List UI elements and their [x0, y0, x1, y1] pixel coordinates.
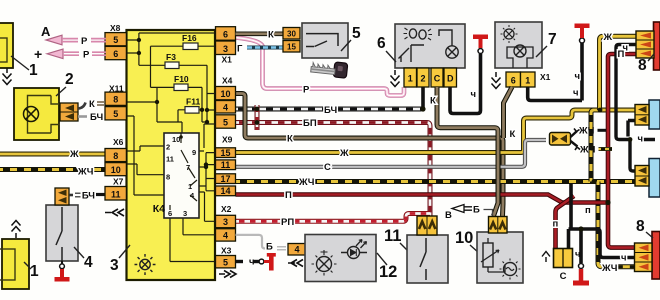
svg-text:6: 6 — [223, 30, 228, 40]
connector of lamp 2 — [60, 103, 78, 121]
switch 6 pin 1 — [404, 68, 417, 87]
svg-text:Ж: Ж — [339, 148, 349, 159]
svg-text:С: С — [324, 162, 331, 173]
leader line for 11 — [400, 243, 409, 252]
wire ЖЧ branch down at x598 to lamp 8 pin 3 — [598, 182, 635, 267]
svg-text:3: 3 — [223, 44, 228, 54]
connector X2 pin 4 — [216, 229, 236, 241]
wire ЖЧ stubs from splice — [571, 131, 578, 147]
wire ЖЧ left side into X6:10 — [0, 167, 105, 172]
svg-text:F11: F11 — [186, 97, 200, 107]
svg-text:D: D — [447, 74, 454, 84]
svg-text:Х9: Х9 — [222, 135, 233, 145]
svg-text:БЧ: БЧ — [324, 105, 337, 116]
connector X11 pin 8 — [105, 92, 126, 105]
wire Г X1:3 to ignition 15 — [247, 46, 283, 50]
svg-text:Х6: Х6 — [113, 137, 124, 147]
connector X9 pin 15 — [216, 148, 236, 158]
leader line for 4 — [74, 247, 84, 258]
leader line for 10 — [470, 245, 479, 253]
svg-text:12: 12 — [379, 263, 397, 281]
svg-text:Г: Г — [237, 43, 243, 54]
wire К from pin C down and right — [437, 87, 498, 216]
lamp symbol in block (illumination) — [135, 254, 156, 275]
svg-text:Х2: Х2 — [221, 204, 232, 214]
wire БЧ (white-black) X4:4 to headlight switch 6 pin 2 — [236, 107, 422, 112]
connector of sidelight С — [554, 249, 573, 268]
wire К from unit 7 pin 6 diagonal down — [504, 87, 513, 138]
fuse F11 — [185, 107, 199, 114]
svg-text:15: 15 — [220, 148, 230, 158]
wire Ч from lamp 8 top pin2 down right corridor — [616, 45, 655, 172]
svg-text:С: С — [434, 74, 441, 84]
switch 6 pin 2 — [417, 68, 429, 87]
wire РП short bridge at x257 — [255, 105, 260, 130]
svg-text:Х4: Х4 — [222, 76, 233, 86]
svg-text:4: 4 — [223, 102, 228, 112]
svg-text:11: 11 — [111, 189, 121, 199]
svg-text:С: С — [560, 271, 567, 282]
unit 7 pin 6 — [506, 72, 521, 87]
ignition switch 5 contact 15 — [283, 41, 300, 53]
svg-text:8: 8 — [166, 173, 170, 182]
svg-text:4: 4 — [223, 231, 228, 241]
relay K4 — [164, 133, 199, 218]
svg-text:ч: ч — [621, 252, 627, 263]
ground (red) right of X3 — [264, 253, 276, 271]
svg-text:3: 3 — [183, 209, 187, 218]
wire labels on long runs — [281, 105, 349, 228]
svg-text:F10: F10 — [174, 74, 189, 84]
glovebox illumination lamp 12 body — [305, 235, 376, 282]
svg-text:10: 10 — [111, 165, 121, 175]
wire Ж (yellow) X9:15 right then up at x572 to rear lamps — [236, 110, 638, 153]
wire Ж branch up to right tail lamp 8 — [600, 36, 639, 110]
svg-text:5: 5 — [113, 35, 118, 45]
svg-text:БЧ: БЧ — [90, 112, 103, 123]
ground of unit 4 — [61, 261, 63, 264]
svg-text:2: 2 — [65, 71, 74, 88]
ignition switch 5 body — [302, 23, 348, 58]
wire БЧ stub into X7:11 — [96, 193, 105, 196]
connector X2 pin 3 — [216, 215, 236, 227]
wire Ч from pin D to ground — [450, 54, 481, 114]
wire ЖЧ branch up at x591 — [591, 110, 594, 182]
fuse F10 — [174, 84, 188, 91]
svg-text:8: 8 — [113, 151, 118, 161]
svg-text:ЖЧ: ЖЧ — [77, 167, 94, 178]
svg-text:ЖЧ: ЖЧ — [578, 126, 595, 137]
body ground symbol left of pins 7 — [492, 72, 501, 89]
connector X1 pin 6 — [216, 27, 236, 41]
wire К X1:6 to ignition 30 — [236, 31, 284, 36]
connector of switch 11 — [417, 216, 437, 235]
wire К hook from lamp 2 — [78, 103, 86, 109]
svg-text:10: 10 — [220, 89, 230, 99]
internal wiring of block — [124, 33, 216, 262]
svg-text:П: П — [618, 49, 625, 60]
wire Р to X8:5 — [62, 39, 106, 42]
wire Ч from pin 2 down to БЧ junction — [421, 87, 425, 109]
svg-text:6: 6 — [113, 49, 118, 59]
svg-text:п: п — [553, 219, 559, 230]
ignition switch 5 contact 30 — [283, 28, 300, 40]
turn repeater (blue, upper) — [649, 100, 660, 129]
wire Ч X3:5 to ground — [236, 260, 244, 263]
svg-text:К: К — [510, 129, 516, 140]
connector X4 pin 5 — [216, 115, 236, 128]
connector pins of bottom lamp 8 — [635, 243, 653, 272]
leader line for 12 — [377, 253, 387, 265]
rear lamp 8 (right bottom) housing — [652, 232, 660, 280]
connector of unit 4 — [55, 188, 69, 205]
fuse F3 — [165, 62, 179, 69]
svg-text:п: п — [585, 205, 591, 216]
wire П stub into lamp 8 top pin3 — [616, 52, 638, 57]
svg-text:К4: К4 — [153, 203, 165, 215]
leader line for 1 — [11, 56, 29, 70]
lighting rheostat 10 body — [477, 232, 523, 283]
svg-text:Х1: Х1 — [540, 72, 551, 82]
svg-text:+: + — [34, 46, 42, 62]
sidelight lamp 2 — [14, 88, 60, 140]
body ground symbol left of pins 6 — [391, 70, 400, 87]
leader line for 1 (bottom) — [24, 262, 31, 269]
wire БП (darkred-white) X4:5 right then down to switch 11 connector — [236, 123, 431, 217]
mounting block 3 body — [127, 30, 216, 280]
svg-text:Р: Р — [83, 50, 90, 61]
ground (red, bottom) — [579, 264, 584, 269]
connector X6 pin 8 — [105, 149, 126, 162]
switch 6 pin C — [431, 68, 443, 87]
turn repeater (blue, lower) — [649, 159, 660, 198]
svg-text:ч: ч — [575, 249, 581, 260]
svg-text:10: 10 — [455, 229, 473, 247]
svg-text:14: 14 — [220, 186, 230, 196]
twisted-pair symbol below lamp 1 — [3, 68, 12, 85]
svg-text:ч: ч — [574, 71, 580, 82]
svg-text:6: 6 — [168, 209, 172, 218]
connector X4 pin 10 — [216, 87, 236, 100]
svg-text:ЖЧ: ЖЧ — [601, 263, 618, 274]
connector X9 pin 11 — [216, 160, 236, 170]
svg-text:П: П — [285, 190, 292, 201]
connector X8 pin 6 — [105, 46, 126, 59]
side marker lamp 1 (top left) — [0, 23, 13, 68]
wire РП (red-white) X2:3 right then up to switch 11 connector — [236, 214, 431, 222]
svg-text:К: К — [268, 29, 274, 40]
svg-text:ЖЧ: ЖЧ — [298, 177, 315, 188]
svg-text:Ж: Ж — [603, 32, 613, 43]
svg-text:5: 5 — [223, 257, 228, 267]
wire Ч branch to ground at bottom — [569, 229, 636, 258]
connector X8 pin 5 — [105, 33, 126, 46]
svg-text:А: А — [41, 24, 51, 39]
wire К (brown) X4:10 right, down, to lamp regulator 10 — [236, 94, 504, 217]
twisted-pair symbol above bottom lamp 1 — [12, 221, 21, 239]
svg-text:К: К — [89, 99, 95, 110]
svg-text:Б: Б — [266, 242, 273, 253]
svg-text:Р: Р — [303, 84, 310, 95]
svg-text:F3: F3 — [166, 52, 176, 62]
continuation arrow left of lamp 12 — [288, 260, 303, 267]
svg-text:БЧ: БЧ — [82, 191, 95, 202]
svg-text:5: 5 — [113, 109, 118, 119]
svg-text:1: 1 — [29, 62, 38, 79]
svg-text:Б: Б — [473, 205, 480, 216]
svg-text:8: 8 — [638, 57, 647, 74]
svg-text:5: 5 — [352, 25, 361, 42]
connector pins of top lamp 8 — [636, 31, 654, 58]
sidelight 7 body — [495, 22, 542, 68]
switch 6 pin D — [444, 68, 457, 87]
connector X7 pin 11 — [105, 187, 126, 201]
svg-text:Р: Р — [81, 36, 88, 47]
svg-text:В: В — [445, 210, 452, 221]
leader line for 8 bottom — [646, 232, 653, 238]
wire Р to X8:6 — [63, 52, 106, 55]
svg-text:17: 17 — [220, 174, 230, 184]
connector X9 pin 14 — [216, 186, 236, 196]
wire С (grey) X9:11 right then up to joint connector — [236, 140, 547, 167]
svg-text:1: 1 — [30, 263, 39, 280]
fuse F16 — [183, 43, 198, 50]
svg-text:1: 1 — [408, 74, 413, 84]
svg-text:Х8: Х8 — [110, 23, 121, 33]
svg-text:8: 8 — [113, 95, 118, 105]
svg-text:4: 4 — [84, 254, 93, 271]
wire П vertical right corridor to both lamps 8 — [608, 54, 636, 248]
wire БЧ stub from unit 4 — [69, 194, 73, 197]
svg-text:2: 2 — [166, 143, 170, 152]
connector X11 pin 5 — [105, 107, 126, 120]
svg-text:ч: ч — [638, 134, 644, 145]
connector X9 pin 17 — [216, 174, 236, 184]
leader line for 8 top — [648, 54, 654, 61]
svg-text:РП: РП — [281, 217, 294, 228]
svg-text:ч: ч — [573, 88, 579, 99]
connector X4 pin 4 — [216, 101, 236, 114]
svg-text:4: 4 — [294, 245, 299, 255]
wire Б (white) X2:4 to glovebox lamp 12 — [236, 235, 266, 249]
inline connector on wire С — [550, 133, 571, 146]
svg-text:11: 11 — [166, 155, 174, 164]
unit 7 pin 1 — [521, 72, 536, 87]
rear lamp 8 (right top) housing — [654, 22, 660, 70]
svg-text:10: 10 — [172, 135, 180, 144]
svg-text:2: 2 — [420, 74, 425, 84]
wire Р (pink) X1:6 down then right to headlight switch 6 pin 1 — [236, 38, 405, 96]
svg-text:6: 6 — [511, 76, 516, 86]
ignition key symbol — [310, 60, 347, 79]
svg-text:Ж: Ж — [69, 149, 79, 160]
svg-text:3: 3 — [223, 217, 228, 227]
svg-text:Х7: Х7 — [113, 176, 124, 186]
connector X6 pin 10 — [105, 163, 126, 176]
leader line for 7 — [536, 46, 547, 57]
connector X1 pin 3 — [216, 41, 236, 55]
connector X3 pin 5 — [216, 256, 236, 268]
svg-text:3: 3 — [110, 257, 119, 274]
connector pin 4 of lamp 12 — [288, 244, 306, 256]
svg-text:5: 5 — [223, 117, 228, 127]
node B arrow annotation — [452, 205, 464, 213]
junction dots on БЧ/БП bridge — [255, 107, 260, 112]
connector continuation arrow below X7 — [105, 209, 124, 216]
connector of rheostat 10 — [489, 217, 508, 234]
svg-text:6: 6 — [377, 35, 386, 52]
wire Ч from unit 7 pin 1 right and down — [528, 87, 582, 229]
ground (red) above for pin D wire — [478, 49, 483, 54]
lamp symbol left of С connector — [542, 252, 550, 263]
headlight switch 6 body — [395, 24, 465, 68]
svg-text:Х3: Х3 — [221, 245, 232, 255]
junction dots inside block — [137, 38, 141, 42]
leader line for 2 — [56, 87, 66, 96]
svg-text:ЖЧ: ЖЧ — [579, 144, 596, 155]
svg-text:К: К — [430, 96, 436, 107]
svg-text:1: 1 — [525, 76, 530, 86]
fog/switch unit 4 (bottom left) — [46, 205, 78, 261]
connector pins of upper repeater — [635, 105, 649, 126]
svg-text:7: 7 — [548, 31, 557, 48]
wire Ч drop to ground circle — [579, 229, 583, 263]
svg-text:11: 11 — [221, 160, 231, 170]
ground (red) above black wire near lamp 8 — [580, 43, 584, 101]
svg-text:Х1: Х1 — [222, 55, 233, 65]
side marker lamp 1 (bottom left) — [0, 239, 29, 289]
svg-text:30: 30 — [287, 29, 296, 38]
svg-text:БП: БП — [303, 118, 317, 129]
wire П branch to sidelight C connector with X-junction — [556, 196, 575, 248]
rear fog switch 11 body — [407, 235, 448, 283]
leader line for 3 — [119, 245, 130, 258]
wire ЖЧ (yellow-black) X9:17 to rear lamps — [236, 179, 637, 184]
leader line for 6 — [386, 51, 396, 62]
svg-text:F16: F16 — [182, 33, 197, 43]
svg-text:8: 8 — [636, 218, 645, 235]
wire П (dark red) X9:14 across — [236, 195, 609, 203]
svg-text:1: 1 — [188, 182, 192, 191]
svg-text:15: 15 — [287, 42, 296, 51]
connector pins of lower repeater — [635, 166, 649, 187]
svg-text:9: 9 — [192, 148, 196, 157]
leader line for 5 — [341, 40, 351, 51]
wire Ж left side into X6:8 — [0, 152, 105, 157]
svg-text:К: К — [287, 134, 293, 145]
wire БЧ stub from lamp 2 — [78, 115, 87, 118]
svg-text:11: 11 — [384, 227, 401, 245]
svg-text:ч: ч — [470, 89, 476, 100]
connector continuation arrow below X3 — [219, 271, 236, 278]
